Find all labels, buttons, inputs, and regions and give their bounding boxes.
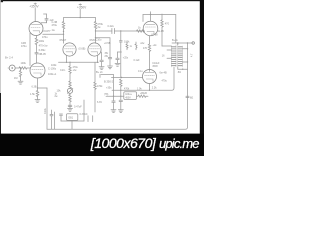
svg-text:1w: 1w bbox=[52, 29, 55, 32]
ground G2 bbox=[35, 100, 40, 103]
svg-text:B+4x: B+4x bbox=[172, 39, 179, 42]
svg-text:+35x: +35x bbox=[106, 86, 112, 89]
svg-text:+25x: +25x bbox=[123, 57, 129, 60]
svg-text:C10-: C10- bbox=[60, 69, 66, 72]
cathode wire V2 bbox=[37, 78, 39, 90]
wire common cathode bbox=[59, 61, 99, 63]
resistor R7 plate right bbox=[94, 18, 96, 44]
svg-text:100k: 100k bbox=[124, 40, 130, 43]
photo edge top bbox=[0, 0, 204, 1]
svg-text:1.0k: 1.0k bbox=[137, 88, 142, 91]
svg-text:[1000x670]: [1000x670] bbox=[90, 135, 157, 151]
svg-text:(0.6B): (0.6B) bbox=[79, 48, 86, 51]
tube V5 output bottom bbox=[143, 70, 157, 84]
primary taps bbox=[167, 49, 172, 51]
wire R3 to V2 grid bbox=[27, 67, 30, 69]
input jack J1 bbox=[8, 65, 15, 71]
long wire lower bbox=[112, 67, 174, 90]
svg-text:6SN7: 6SN7 bbox=[60, 38, 67, 42]
svg-text:6.3B: 6.3B bbox=[32, 86, 37, 89]
svg-text:KCP7: KCP7 bbox=[44, 29, 52, 33]
svg-text:8Ω: 8Ω bbox=[178, 71, 181, 74]
cap value box B3 bbox=[124, 92, 137, 100]
ground G3 bbox=[68, 109, 73, 112]
svg-text:470k: 470k bbox=[124, 87, 130, 90]
svg-text:(78): (78) bbox=[104, 93, 108, 96]
svg-text:0.22u: 0.22u bbox=[108, 25, 115, 28]
wire +350V to rail bbox=[79, 9, 81, 17]
svg-text:200k: 200k bbox=[39, 40, 45, 43]
watermark text bbox=[90, 135, 200, 151]
ground G7 bbox=[99, 67, 104, 70]
wire jack to R3 bbox=[15, 67, 19, 69]
resistor R4 1M to ground bbox=[19, 67, 21, 81]
capacitor C7 bbox=[112, 101, 115, 110]
svg-text:470u: 470u bbox=[52, 24, 58, 27]
svg-text:+350V: +350V bbox=[77, 6, 87, 10]
plate wire V4 bbox=[143, 15, 151, 22]
balance resistor R11 bbox=[94, 62, 96, 112]
cathode chain under V1 bbox=[36, 36, 38, 38]
resistor R3 grid stopper bbox=[19, 67, 27, 69]
tube V1 bbox=[29, 22, 43, 36]
capacitor C8 bbox=[119, 100, 122, 109]
svg-text:B.350-2: B.350-2 bbox=[104, 79, 114, 83]
secondary taps bbox=[182, 48, 187, 50]
potentiometer P1 bbox=[67, 88, 72, 93]
svg-text:KT88: KT88 bbox=[152, 33, 159, 36]
transformer T1 secondary bbox=[178, 43, 183, 67]
transformer T1 primary bbox=[172, 45, 177, 67]
node +350V label V1 column bbox=[34, 3, 36, 5]
wire plate rail bbox=[64, 17, 96, 19]
capacitor C2 bbox=[35, 53, 38, 54]
svg-text:2w: 2w bbox=[55, 96, 58, 98]
svg-text:8Ω: 8Ω bbox=[190, 97, 193, 100]
wire into supply bbox=[101, 75, 114, 101]
wire V1 plate to coupling cap C1 bbox=[41, 22, 46, 23]
resistor R2 bbox=[35, 38, 38, 45]
capacitor C11 leg bbox=[100, 52, 103, 67]
cathode wire V5 bbox=[149, 83, 151, 90]
branch wire to C3 bbox=[38, 87, 48, 89]
tube V3a bbox=[63, 43, 76, 56]
wire plate tap to screen cap bbox=[95, 37, 110, 57]
wire V1 left column down bbox=[29, 33, 31, 66]
svg-text:upic.me: upic.me bbox=[159, 136, 200, 151]
svg-text:+0.5B: +0.5B bbox=[104, 42, 111, 45]
svg-text:470: 470 bbox=[165, 22, 170, 25]
supply rail bbox=[106, 95, 124, 97]
svg-text:6.3Mx: 6.3Mx bbox=[39, 49, 47, 52]
capacitor C9 on speaker line bbox=[186, 96, 189, 97]
svg-text:+350V: +350V bbox=[29, 5, 39, 9]
svg-text:6x+4B: 6x+4B bbox=[160, 71, 167, 74]
capacitor C1 bbox=[45, 19, 48, 23]
tube V4 output top bbox=[143, 21, 158, 36]
svg-text:-2w: -2w bbox=[73, 69, 77, 72]
node junction bbox=[120, 30, 121, 31]
svg-text:1M: 1M bbox=[14, 77, 17, 80]
ground G5 bbox=[118, 110, 123, 113]
resistor R9 bbox=[69, 81, 71, 88]
capacitor C6 bbox=[112, 28, 115, 33]
svg-text:100k+1: 100k+1 bbox=[48, 73, 57, 76]
cathode wires to common bbox=[66, 56, 68, 63]
resistor R15 on grid leak bbox=[120, 79, 122, 86]
svg-text:2w: 2w bbox=[98, 27, 101, 29]
svg-text:470k: 470k bbox=[97, 85, 103, 88]
svg-text:1.5k: 1.5k bbox=[30, 93, 35, 96]
node +350V label center bbox=[79, 4, 82, 5]
svg-text:OB-05: OB-05 bbox=[39, 53, 47, 56]
svg-text:470: 470 bbox=[143, 47, 148, 50]
component box B1 bbox=[67, 114, 78, 121]
watermark bottom bar bbox=[0, 134, 204, 156]
svg-text:0.1u: 0.1u bbox=[138, 70, 143, 73]
svg-text:470u: 470u bbox=[42, 36, 48, 39]
svg-text:B+ 2x: B+ 2x bbox=[96, 70, 103, 74]
svg-text:450V: 450V bbox=[152, 65, 158, 68]
ground G1 bbox=[18, 81, 23, 84]
ground G8 bbox=[115, 63, 120, 66]
capacitor C10 bbox=[108, 58, 111, 66]
tube V3b bbox=[88, 43, 101, 56]
speaker line and ground bus bbox=[47, 43, 188, 129]
resistor R12 grid bbox=[137, 30, 145, 32]
coupling wire to output stage bbox=[96, 30, 112, 32]
wire to primary center tap bbox=[175, 15, 177, 43]
wire V1 plate to splitter grid bbox=[43, 33, 64, 35]
svg-text:C-100u: C-100u bbox=[48, 67, 57, 70]
photo edge right black band bbox=[200, 0, 204, 156]
resistor R5 cathode bbox=[36, 90, 38, 96]
svg-text:+B420: +B420 bbox=[140, 92, 148, 95]
svg-text:470+1w: 470+1w bbox=[39, 44, 48, 47]
svg-text:0.22u: 0.22u bbox=[44, 107, 47, 114]
secondary bottom tap bbox=[177, 67, 179, 69]
svg-text:450V: 450V bbox=[125, 96, 131, 99]
svg-text:C10u: C10u bbox=[96, 39, 102, 42]
svg-text:x2w: x2w bbox=[140, 43, 144, 45]
wire from +350V to V1 plate bbox=[34, 8, 36, 21]
resistor R13 bbox=[161, 14, 163, 46]
bias component pair bbox=[126, 42, 137, 50]
svg-text:6.3V: 6.3V bbox=[97, 101, 102, 104]
grid leak vertical bbox=[119, 31, 122, 78]
svg-text:270k: 270k bbox=[98, 23, 104, 26]
svg-text:470u: 470u bbox=[162, 80, 168, 83]
grid wire V5 bbox=[112, 77, 143, 79]
svg-text:B+ 2.4: B+ 2.4 bbox=[5, 56, 13, 60]
svg-text:470u: 470u bbox=[21, 45, 27, 48]
svg-text:100k: 100k bbox=[21, 62, 27, 65]
capacitor C3 bypass bbox=[44, 107, 55, 129]
capacitor C12 leg bbox=[116, 52, 122, 63]
resistor R16 supply bbox=[138, 95, 146, 97]
svg-text:100k: 100k bbox=[51, 64, 57, 67]
photo edge left bbox=[0, 0, 2, 134]
bottom network wires bbox=[60, 100, 93, 122]
resistor R6 plate left bbox=[62, 18, 64, 44]
ground G4 bbox=[111, 110, 116, 113]
tail chain resistor R8 bbox=[69, 62, 71, 81]
svg-text:0.1uF: 0.1uF bbox=[134, 59, 141, 62]
resistor R10 bbox=[69, 93, 71, 107]
screen resistor R14 bbox=[148, 36, 150, 72]
svg-text:4x-0B: 4x-0B bbox=[158, 30, 165, 33]
svg-text:0.47uF: 0.47uF bbox=[74, 106, 82, 109]
ground G6 bbox=[108, 66, 113, 69]
svg-text:2.2k: 2.2k bbox=[152, 86, 157, 89]
tube V2 input bbox=[30, 63, 45, 78]
svg-text:OB1: OB1 bbox=[68, 117, 73, 120]
capacitor C5 bbox=[68, 105, 72, 108]
white paper background bbox=[0, 0, 204, 156]
B+ terminal line bbox=[172, 42, 192, 44]
